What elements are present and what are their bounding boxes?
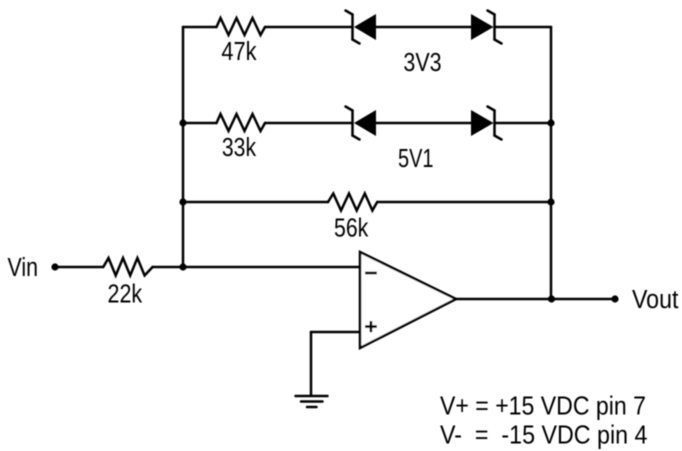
wire 22k to op-amp inverting input — [153, 266, 361, 269]
op-amp U1 — [360, 252, 456, 348]
wire Vin to 22k — [55, 266, 103, 269]
node left rail row2 — [179, 119, 186, 126]
svg-text:V- = -15 VDC pin 4: V- = -15 VDC pin 4 — [440, 420, 648, 450]
svg-text:22k: 22k — [108, 280, 143, 308]
svg-text:V+ = +15 VDC pin 7: V+ = +15 VDC pin 7 — [440, 390, 646, 420]
resistor R2 33k — [217, 114, 266, 131]
svg-text:56k: 56k — [334, 215, 368, 243]
wire D2 to right rail — [495, 26, 551, 29]
node right rail row2 — [547, 119, 554, 126]
zener D1 3V3 left — [346, 11, 377, 44]
ground — [296, 396, 328, 407]
wire noninverting input — [311, 331, 360, 334]
svg-text:3V3: 3V3 — [403, 49, 441, 77]
wire row3 left — [183, 201, 328, 204]
wire row1 left rail to 47k — [183, 26, 217, 29]
wire D4 to right rail — [495, 122, 551, 125]
svg-text:Vin: Vin — [8, 254, 39, 282]
wire output — [456, 298, 615, 301]
wire between D1 D2 — [376, 26, 471, 29]
wire row2 left rail to 33k — [183, 122, 217, 125]
wire 33k to D3 — [265, 122, 352, 125]
left rail — [182, 27, 185, 267]
wire 47k to D1 — [265, 26, 352, 29]
svg-text:47k: 47k — [221, 38, 256, 66]
node Vout terminal — [611, 295, 618, 302]
node right rail output — [548, 295, 555, 302]
zener D2 3V3 right — [471, 11, 502, 44]
zener D4 5V1 right — [471, 107, 502, 140]
resistor R1 47k — [217, 18, 266, 35]
zener D3 5V1 left — [346, 107, 377, 140]
svg-text:33k: 33k — [222, 134, 256, 162]
wire between D3 D4 — [376, 122, 471, 125]
node left rail input — [179, 263, 186, 270]
right rail — [550, 27, 553, 299]
wire to ground — [310, 332, 313, 395]
node right rail row3 — [547, 198, 554, 205]
resistor R3 56k — [328, 194, 377, 211]
svg-text:Vout: Vout — [632, 286, 678, 314]
node Vin terminal — [51, 263, 58, 270]
node left rail row3 — [179, 198, 186, 205]
resistor R4 22k — [103, 258, 152, 276]
svg-text:5V1: 5V1 — [398, 145, 434, 173]
wire row3 right — [377, 201, 551, 204]
